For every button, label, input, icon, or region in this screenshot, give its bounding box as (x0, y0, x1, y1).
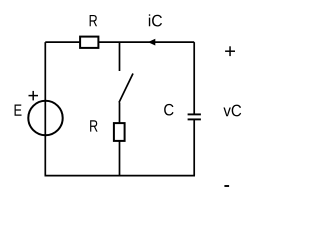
switch blade (open) (119, 74, 133, 103)
wire bottom horizontal (45, 175, 196, 177)
plus sign right (capacitor polarity) (225, 46, 235, 56)
label C (164, 104, 173, 116)
label vC (223, 105, 241, 117)
wire right vertical upper (to capacitor) (193, 42, 195, 114)
label R (top resistor) (90, 15, 97, 26)
label E (15, 104, 22, 115)
resistor R1 (top, horizontal body) (80, 37, 98, 48)
voltage source E (circle) (28, 101, 62, 135)
label iC (149, 14, 162, 26)
label R (middle resistor) (90, 120, 97, 131)
plus sign of source E (29, 91, 39, 101)
minus sign bottom right (224, 185, 229, 187)
wire left vertical (44, 42, 46, 175)
wire right vertical lower (from capacitor) (193, 119, 195, 175)
current arrow iC (points left) (148, 39, 155, 46)
capacitor C bottom plate (188, 118, 201, 120)
wire middle branch lower (119, 103, 121, 176)
wire top horizontal (45, 41, 194, 43)
resistor R2 (middle branch, vertical body) (114, 123, 125, 141)
capacitor C top plate (188, 113, 201, 115)
wire middle branch upper (to switch) (119, 42, 121, 71)
